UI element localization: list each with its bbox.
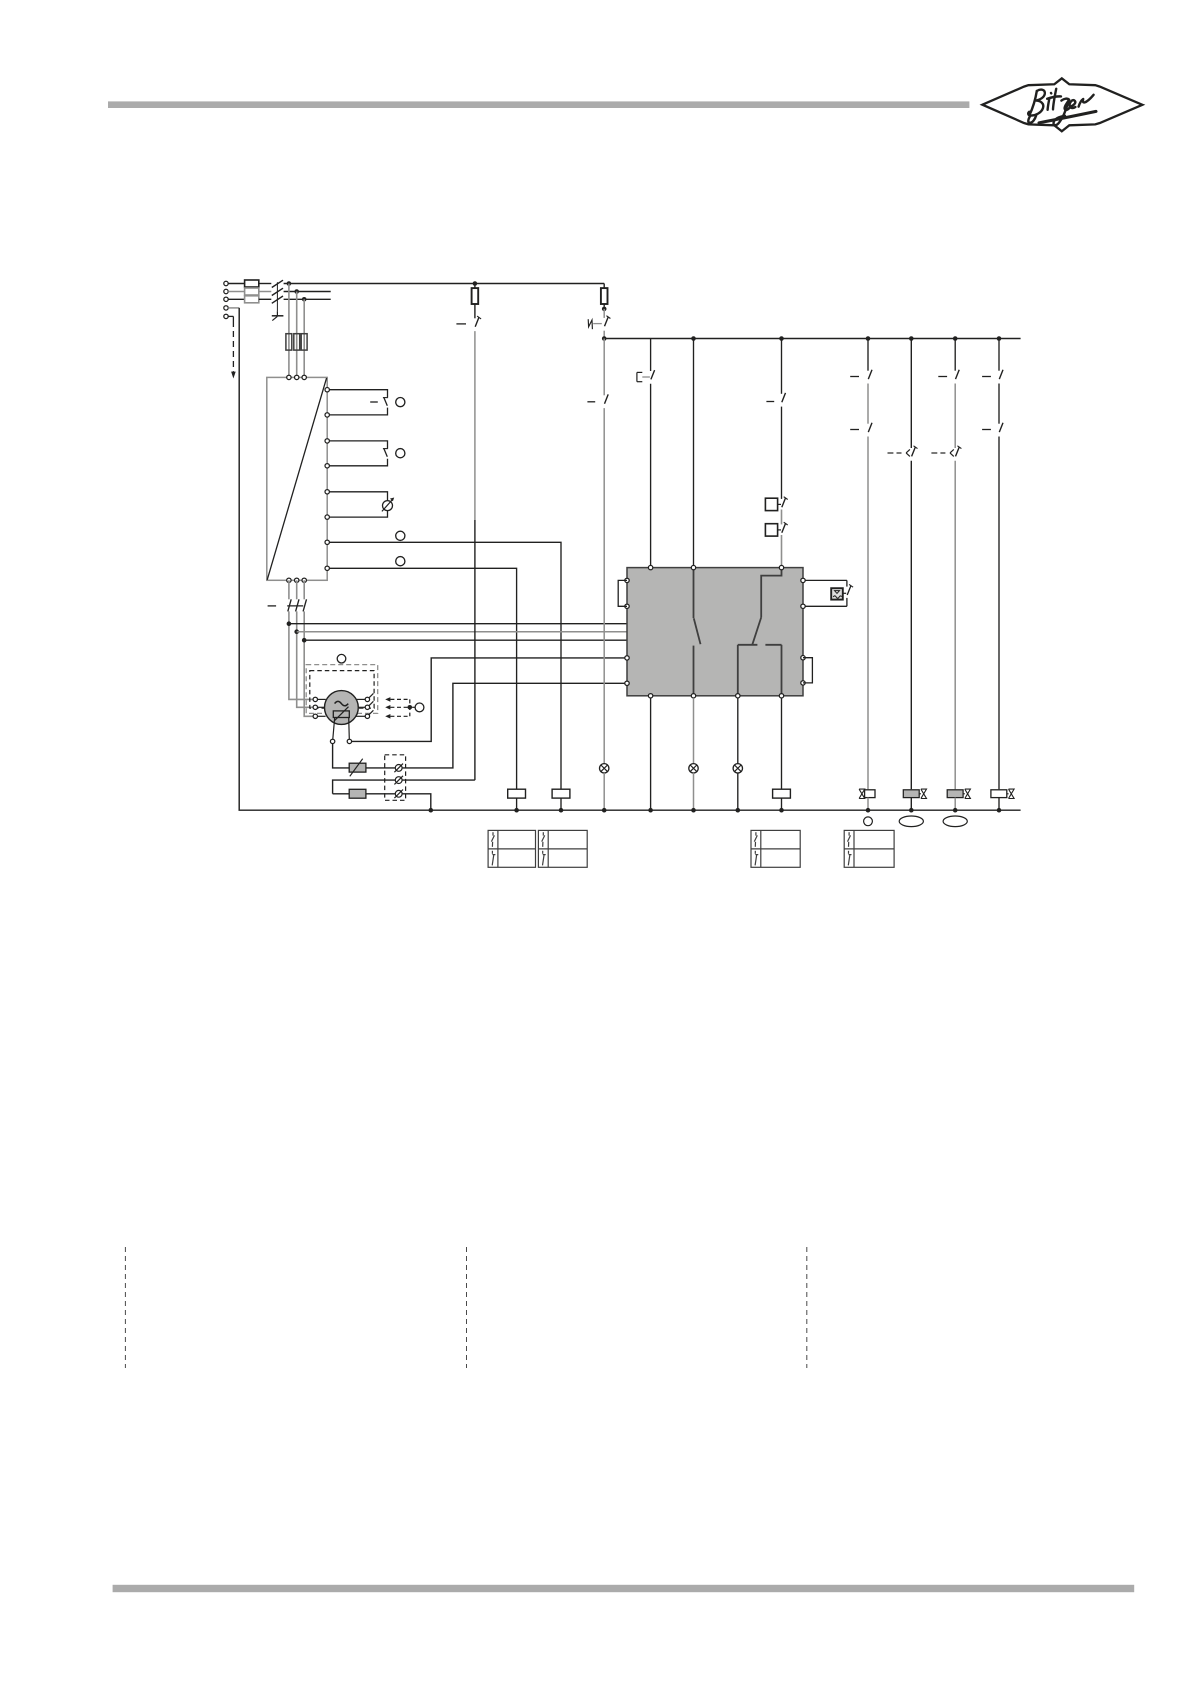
LP pressure switch box xyxy=(765,524,777,536)
wire Y4 to N rail xyxy=(998,798,1000,811)
fuse F3 xyxy=(601,288,608,304)
wire rail to K contact Y3 xyxy=(954,339,956,371)
label dash K3-1 xyxy=(850,429,859,431)
protection module A1 xyxy=(627,568,803,696)
wire phase1 drop xyxy=(288,284,290,378)
relay coil K4 xyxy=(773,789,791,798)
main switch Q1 pole 2 xyxy=(272,288,283,295)
wire L2 to fuse xyxy=(228,291,244,293)
release dashes Y2 xyxy=(888,452,894,454)
wire phase2 drop xyxy=(296,292,298,378)
motor PTC leg right xyxy=(348,718,351,740)
wire K3 to N rail xyxy=(560,798,562,810)
contact K3-1 xyxy=(868,423,872,432)
temperature sensor 3 xyxy=(395,790,402,797)
U1 output terminal 1 xyxy=(287,578,291,582)
U1 right terminal 2 xyxy=(325,413,329,417)
contact table K5 xyxy=(844,830,894,867)
terminal N xyxy=(224,306,228,310)
fuse F2 xyxy=(472,288,479,304)
wire rail to contact S5 xyxy=(603,339,605,396)
A1 terminal left 4 xyxy=(625,681,629,685)
wire S4 to HP switch xyxy=(781,407,783,499)
wire rail to S3 xyxy=(650,339,652,372)
wire rail to release Y2 xyxy=(910,339,912,449)
wire tap phase3 xyxy=(304,639,627,641)
analog arrow head xyxy=(390,498,394,502)
node N rail K2 xyxy=(514,808,519,813)
label dash K2-1 xyxy=(850,376,859,378)
tail U2 xyxy=(369,693,373,697)
motor PTC terminal 1 xyxy=(330,739,334,743)
node tap phase3 xyxy=(302,638,307,643)
node link xyxy=(408,705,413,710)
U1 input terminal 2 xyxy=(295,375,299,379)
motor terminal U xyxy=(313,697,317,701)
contact S2 xyxy=(475,317,479,326)
wire rail to K contact Y1 xyxy=(867,339,869,371)
A1 terminal bottom 2 xyxy=(691,694,695,698)
U1 relay output 2 loop xyxy=(329,441,387,448)
label dash S5 xyxy=(587,401,595,403)
node N rail D xyxy=(779,808,784,813)
contactor K1 pole 1 xyxy=(288,599,291,611)
fuse F1.3 xyxy=(245,296,259,303)
wire F2 drop xyxy=(474,284,476,289)
lamp H1 xyxy=(600,764,609,773)
release chevron Y3 xyxy=(950,449,954,453)
wire F3 to lamp xyxy=(603,408,605,763)
S3 manual actuator bracket xyxy=(636,372,638,381)
U1 right terminal 3 xyxy=(325,439,329,443)
terminal L1 xyxy=(224,281,228,285)
node F3 xyxy=(602,307,607,312)
line choke 2 xyxy=(294,334,300,350)
PE dashed line xyxy=(232,321,234,372)
wire L2 stub xyxy=(284,291,331,293)
sensor group dashed box xyxy=(385,755,406,801)
wire Y3 to N rail xyxy=(954,798,956,811)
wire HP to LP gray xyxy=(781,510,783,525)
contact K2-1 xyxy=(868,370,872,379)
motor terminal U2 xyxy=(365,697,369,701)
oil sensor triangle xyxy=(835,591,840,594)
wire F2 to contact xyxy=(474,304,476,318)
node N rail A xyxy=(648,808,653,813)
ground symbol xyxy=(276,311,278,315)
wire PTC row3 xyxy=(333,794,431,810)
wire L1 rail xyxy=(284,283,605,285)
legend separator 2 xyxy=(466,1247,468,1368)
A1 internal changeover xyxy=(761,570,781,618)
label dash S4 xyxy=(766,401,774,403)
wire Y1 to N rail xyxy=(867,798,869,811)
dashed link vertical xyxy=(409,699,411,716)
oil sensor contact xyxy=(847,586,851,595)
node rail XB xyxy=(691,336,696,341)
LP switch stub xyxy=(778,529,781,531)
line choke 3 xyxy=(301,334,307,350)
signal circle 3 xyxy=(396,531,405,540)
stub motor W2 xyxy=(356,715,365,717)
oil sensor loop right lower xyxy=(846,598,848,606)
wire PTC row1 xyxy=(333,683,627,768)
node L3 xyxy=(302,297,307,302)
control rail xyxy=(604,338,1020,340)
release dashes Y3 xyxy=(931,452,937,454)
dashed link mid xyxy=(390,706,409,708)
motor terminal box inner dashed xyxy=(310,671,374,709)
node L2 xyxy=(294,289,299,294)
terminal L2 xyxy=(224,289,228,293)
wire tap phase1 xyxy=(289,623,627,625)
lamp H3 xyxy=(733,764,742,773)
stub Y4 valve xyxy=(1007,793,1009,795)
contact S5 xyxy=(605,394,609,403)
header rule bar xyxy=(108,101,969,108)
node N rail Y2 xyxy=(909,808,914,813)
U1 right terminal 4 xyxy=(325,464,329,468)
node heater to N rail xyxy=(429,808,434,813)
motor terminal W xyxy=(313,714,317,718)
stub motor V xyxy=(318,706,325,708)
A1 terminal top 2 xyxy=(691,565,695,569)
S1 actuator line xyxy=(593,323,602,325)
A1 terminal left 1 xyxy=(625,578,629,582)
wire U1 term7 to coil K3 xyxy=(329,542,561,789)
wire H1 to N rail xyxy=(603,773,605,810)
PTC resistor diagonal xyxy=(350,759,363,777)
HP switch stub xyxy=(778,503,781,505)
LP switch contact xyxy=(782,524,786,533)
HP pressure switch box xyxy=(765,498,777,510)
wire phase3 drop xyxy=(303,299,305,377)
contact K4-1 xyxy=(999,423,1003,432)
wire module drop B upper xyxy=(693,698,695,764)
node rail XD xyxy=(779,336,784,341)
node N rail Y1 xyxy=(866,808,871,813)
node N rail Y4 xyxy=(997,808,1002,813)
S1 release glyph xyxy=(588,319,592,329)
A1 left bridge xyxy=(618,580,627,606)
wire Y4 to solenoid xyxy=(998,437,1000,790)
stub motor U xyxy=(318,698,326,700)
motor PTC rect xyxy=(333,711,349,718)
terminal PE xyxy=(224,314,228,318)
wire Y1 mid xyxy=(867,384,869,424)
stub Y2 valve xyxy=(919,793,921,795)
S3 actuator line xyxy=(642,376,650,378)
wire L1 fuse to switch xyxy=(259,283,272,285)
motor terminal box outer dashed xyxy=(306,665,378,714)
wire N down and bottom rail xyxy=(239,308,1020,810)
indicator circle Y1 xyxy=(864,817,873,826)
node L1-K1 xyxy=(287,281,292,286)
node rail Y2 xyxy=(909,336,914,341)
temperature sensor 2 xyxy=(395,777,402,784)
legend separator 3 xyxy=(806,1247,808,1368)
sensor circle xyxy=(415,703,424,712)
wire K4 to N rail xyxy=(781,798,783,810)
solenoid coil Y3 xyxy=(947,790,963,798)
label dash K1 xyxy=(268,605,277,607)
contact S3 xyxy=(651,370,655,379)
A1 terminal right 3 xyxy=(801,656,805,660)
wire L3 fuse to switch xyxy=(259,298,272,300)
tail W2 xyxy=(369,710,373,714)
BITZER logo emblem xyxy=(982,78,1142,131)
wire rail to module B xyxy=(693,339,695,566)
switch link bar xyxy=(276,282,278,311)
link arrow 2 xyxy=(385,705,390,710)
node tap phase2 xyxy=(294,629,299,634)
release contact Y3 xyxy=(956,447,960,456)
relay coil K2 xyxy=(508,789,526,798)
wire module drop C upper xyxy=(737,698,739,764)
U1 output terminal 2 xyxy=(295,578,299,582)
U1 relay contact 2 xyxy=(384,449,387,457)
fuse F1.1 xyxy=(245,280,259,287)
lamp H2 xyxy=(689,764,698,773)
U1 output terminal 3 xyxy=(302,578,306,582)
node rail Y3 xyxy=(953,336,958,341)
A1 terminal bottom 1 xyxy=(648,694,652,698)
solenoid valve Y1 symbol xyxy=(859,789,865,794)
stub motor V2 xyxy=(358,706,365,708)
release chevron Y2 xyxy=(906,449,910,453)
fuse F1.2 xyxy=(245,288,259,295)
node N rail K3 xyxy=(559,808,564,813)
wire module drop B lower xyxy=(693,773,695,810)
contact S1 release xyxy=(605,317,609,326)
node rail F3 xyxy=(602,336,607,341)
solenoid valve Y3 symbol xyxy=(965,789,971,794)
PTC resistor xyxy=(349,763,366,772)
oil sensor loop top xyxy=(805,579,847,581)
motor PTC terminal 2 xyxy=(347,739,351,743)
contact K2-2 xyxy=(956,370,960,379)
contactor K1 pole 2 xyxy=(296,599,299,611)
U1 right terminal 6 xyxy=(325,515,329,519)
main switch Q1 pole 3 xyxy=(272,296,283,303)
solenoid valve Y4 symbol xyxy=(1009,789,1015,794)
wire phase2 to motor xyxy=(297,611,314,707)
wire Y2 to solenoid xyxy=(910,461,912,790)
link arrow 3 xyxy=(385,714,390,719)
A1 internal contact xyxy=(693,570,695,618)
U1 relay output 1 loop xyxy=(329,390,387,397)
label dash K3-2 xyxy=(982,376,991,378)
oil sensor wave xyxy=(833,596,842,598)
wire PE stub xyxy=(228,315,233,317)
contact table K4 xyxy=(751,830,800,867)
A1 terminal right 2 xyxy=(801,604,805,608)
wire F2 contact down xyxy=(474,520,476,780)
wire tap phase2 xyxy=(297,631,627,633)
wire F3 to contact xyxy=(603,309,605,318)
U1 right terminal 5 xyxy=(325,490,329,494)
motor terminal V2 xyxy=(365,705,369,709)
line choke 1 xyxy=(286,334,292,350)
footer rule bar xyxy=(113,1585,1135,1592)
label dash relay 1 xyxy=(370,401,378,403)
wire module drop C lower xyxy=(737,773,739,810)
wire F2 contact down gray xyxy=(474,331,476,520)
wire L3 to fuse xyxy=(228,298,244,300)
tail V2 xyxy=(369,701,373,705)
contact S4 xyxy=(782,393,786,402)
dashed link top xyxy=(390,698,409,700)
wire S3 to module xyxy=(650,384,652,566)
oil level sensor box xyxy=(831,588,843,599)
wire phase1 to motor xyxy=(289,611,313,699)
label dash K4-1 xyxy=(982,429,991,431)
main switch Q1 pole 1 xyxy=(272,280,283,287)
solenoid valve Y2 symbol xyxy=(921,789,927,794)
temperature sensor 1 xyxy=(395,765,402,772)
node N rail F3 xyxy=(602,808,607,813)
solenoid coil Y1 xyxy=(865,790,875,798)
motor PTC diagonal xyxy=(334,707,348,721)
wire rail to S4 xyxy=(781,339,783,394)
stub Y3 valve xyxy=(963,793,965,795)
wire rail to K contact Y4 xyxy=(998,339,1000,371)
stub motor W xyxy=(318,715,326,717)
analog output symbol xyxy=(383,501,393,511)
label dash S2 xyxy=(456,323,466,325)
HP switch contact xyxy=(782,498,786,507)
K1 link bar xyxy=(287,605,303,607)
motor PTC leg left xyxy=(333,718,335,740)
wire Y3 mid xyxy=(954,384,956,449)
A1 terminal right 1 xyxy=(801,578,805,582)
wire Y2 to N rail xyxy=(910,798,912,811)
relay coil K3 xyxy=(552,789,570,798)
U1 input terminal 3 xyxy=(302,375,306,379)
solenoid coil Y4 xyxy=(991,790,1007,798)
A1 terminal left 3 xyxy=(625,656,629,660)
U1 relay contact 1 xyxy=(384,398,387,406)
crankcase heater xyxy=(349,789,366,798)
node rail Y1 xyxy=(866,336,871,341)
wire N terminal xyxy=(228,307,239,309)
oil sensor loop right upper xyxy=(846,580,848,586)
PE arrowhead xyxy=(231,372,236,379)
inverter diagonal xyxy=(267,378,326,580)
node tap phase1 xyxy=(287,621,292,626)
A1 terminal top 1 xyxy=(648,565,652,569)
contact K3-2 xyxy=(999,370,1003,379)
wire Y1 to solenoid xyxy=(867,437,869,790)
dashed link bottom xyxy=(390,715,409,717)
motor M1 xyxy=(325,691,359,725)
wire L2 fuse to switch xyxy=(259,291,272,293)
wire motor aux to module xyxy=(352,658,627,742)
wire PTC row2 xyxy=(333,780,475,794)
signal circle 2 xyxy=(396,449,405,458)
wire Y4 mid xyxy=(998,384,1000,424)
wire L3 stub xyxy=(284,298,331,300)
frequency inverter U1 box xyxy=(267,377,327,580)
U1 analog output loop xyxy=(329,492,387,501)
A1 terminal right 4 xyxy=(801,681,805,685)
contact table K2 xyxy=(488,830,535,867)
U1 input terminal 1 xyxy=(287,375,291,379)
stub motor U2 xyxy=(356,698,365,700)
node N rail C xyxy=(736,808,741,813)
stub link circle xyxy=(412,706,415,708)
oil sensor stub xyxy=(843,592,846,594)
terminal L3 xyxy=(224,297,228,301)
A1 terminal bottom 4 xyxy=(779,694,783,698)
A1 terminal left 2 xyxy=(625,604,629,608)
contact table K3 xyxy=(538,830,587,867)
wire U1 out1 drop xyxy=(288,580,290,599)
contactor K1 pole 3 xyxy=(303,599,306,611)
wire module drop A xyxy=(650,698,652,810)
solenoid coil Y2 xyxy=(903,790,919,798)
oil sensor loop bottom xyxy=(805,605,847,607)
node rail Y4 xyxy=(997,336,1002,341)
wire U1 term8 to coil K2 xyxy=(329,568,516,789)
indicator ellipse Y3 xyxy=(943,816,967,827)
marker circle above motor xyxy=(337,654,346,663)
wire module drop D xyxy=(781,698,783,789)
U1 right terminal 8 xyxy=(325,566,329,570)
node L1-F2 xyxy=(473,281,478,286)
wire LP to module xyxy=(781,535,783,565)
A1 terminal top 3 xyxy=(779,565,783,569)
motor tilde xyxy=(335,701,349,705)
motor terminal V xyxy=(313,705,317,709)
signal circle 4 xyxy=(396,557,405,566)
U1 right terminal 7 xyxy=(325,540,329,544)
A1 terminal bottom 3 xyxy=(736,694,740,698)
motor terminal W2 xyxy=(365,714,369,718)
link arrow 1 xyxy=(385,697,390,702)
wire phase3 to motor xyxy=(304,611,313,716)
wire Y3 to solenoid xyxy=(954,461,956,790)
wire S1 to rail xyxy=(603,331,605,339)
release contact Y2 xyxy=(912,447,916,456)
wire L1 corner to F3 xyxy=(603,284,605,289)
label dash K2-2 xyxy=(938,376,947,378)
wire U1 out2 drop xyxy=(296,580,298,599)
indicator ellipse Y2 xyxy=(899,816,923,827)
A1 right bridge xyxy=(803,658,812,683)
U1 right terminal 1 xyxy=(325,388,329,392)
wire U1 out3 drop xyxy=(303,580,305,599)
node N rail B xyxy=(691,808,696,813)
wire L1 to fuse xyxy=(228,283,244,285)
node N rail Y3 xyxy=(953,808,958,813)
wire F3 below fuse xyxy=(603,304,605,307)
wire K2 to N rail xyxy=(516,798,518,810)
signal circle 1 xyxy=(396,398,405,407)
legend separator 1 xyxy=(124,1247,126,1368)
